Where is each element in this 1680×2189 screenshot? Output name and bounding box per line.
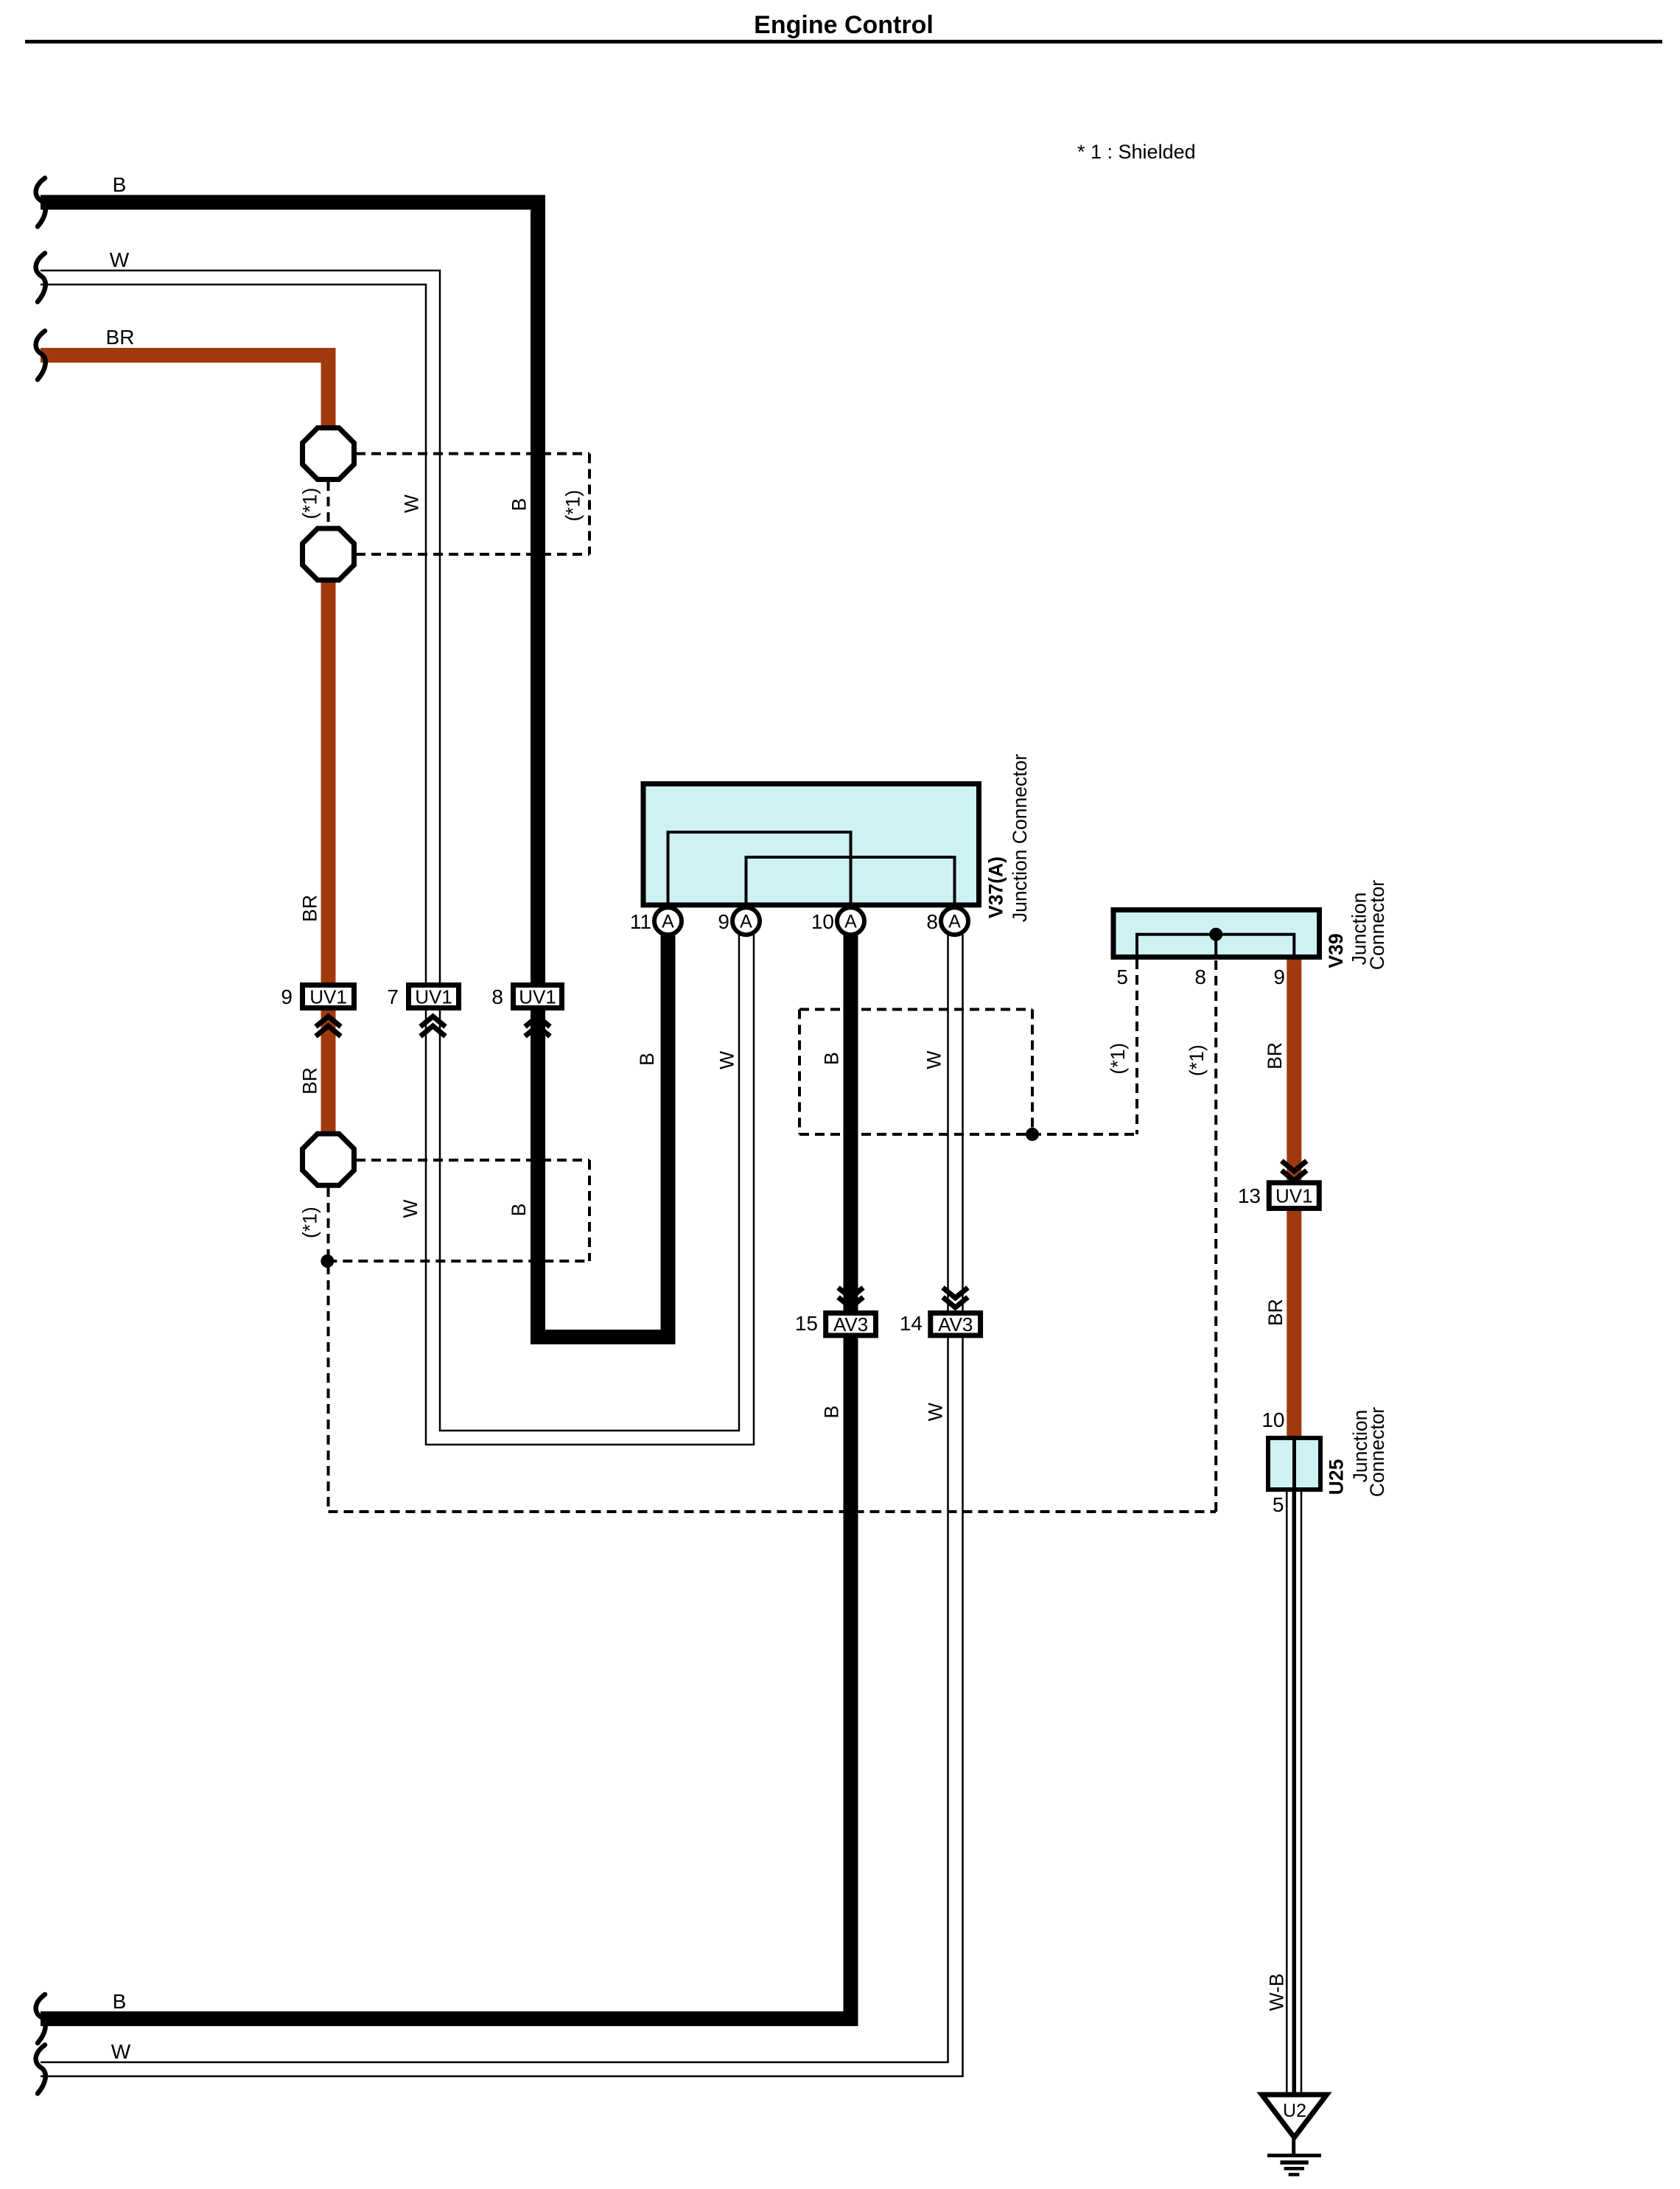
svg-text:W: W bbox=[111, 2040, 131, 2063]
svg-text:UV1: UV1 bbox=[415, 986, 452, 1008]
svg-text:9: 9 bbox=[1273, 966, 1285, 988]
svg-text:W-B: W-B bbox=[1265, 1973, 1287, 2011]
V39 internal junction dot bbox=[1209, 928, 1222, 941]
svg-text:U25: U25 bbox=[1326, 1459, 1348, 1495]
wire BR: octagon2 to octagon3 through UV1 connector 9 bbox=[321, 580, 336, 1136]
svg-text:B: B bbox=[508, 498, 530, 512]
shield dashes: right side of shield B bbox=[588, 1160, 591, 1261]
ground bar 2 bbox=[1281, 2160, 1309, 2165]
wire-continues squiggle (W bottom) bbox=[36, 2045, 46, 2094]
shield dashes: between octagon1 and octagon2 bbox=[327, 481, 330, 527]
svg-text:BR: BR bbox=[106, 326, 135, 349]
svg-text:8: 8 bbox=[491, 985, 503, 1008]
svg-text:9: 9 bbox=[281, 985, 293, 1008]
shield box C: left edge bbox=[798, 1010, 801, 1135]
svg-text:A: A bbox=[740, 912, 752, 932]
wire W-B from U25 pin 5 down to ground U2 bbox=[1286, 1492, 1288, 2092]
svg-text:13: 13 bbox=[1238, 1184, 1261, 1207]
svg-text:W: W bbox=[925, 1403, 947, 1421]
ground bar 1 bbox=[1267, 2154, 1321, 2157]
ground bar 3 bbox=[1284, 2167, 1304, 2171]
svg-text:B: B bbox=[821, 1052, 843, 1065]
wire-continues squiggle (BR top) bbox=[36, 331, 46, 380]
svg-text:B: B bbox=[636, 1052, 658, 1066]
chevron arrows UV1 13 bbox=[1281, 1161, 1306, 1181]
V37(A) pin 11 terminal bbox=[654, 907, 682, 935]
svg-text:(*1): (*1) bbox=[298, 488, 321, 520]
svg-text:UV1: UV1 bbox=[309, 986, 347, 1008]
svg-text:(*1): (*1) bbox=[298, 1207, 321, 1238]
svg-text:(*1): (*1) bbox=[1107, 1043, 1129, 1075]
svg-text:10: 10 bbox=[811, 910, 834, 933]
junction dot shield box C bbox=[1026, 1128, 1039, 1141]
wire BR (top): from left edge to shield octagon bbox=[41, 355, 329, 427]
shield dashes: shield B lower arm back to drain bbox=[327, 1260, 589, 1263]
junction connector V39 body bbox=[1113, 910, 1320, 957]
svg-text:(*1): (*1) bbox=[562, 490, 584, 522]
svg-text:A: A bbox=[948, 912, 961, 932]
svg-text:W: W bbox=[401, 495, 423, 513]
chevron arrows UV1 9 bbox=[316, 1016, 341, 1036]
chevron arrows UV1 8 bbox=[525, 1016, 550, 1036]
wire B (top): from left edge, right then down, U-bend to V37(A) pin 11 bbox=[41, 203, 668, 1338]
junction dot on shield drain bbox=[321, 1254, 334, 1268]
title underline bbox=[25, 40, 1662, 43]
V37(A) internal jumper pin11-pin10 bbox=[668, 832, 851, 907]
shield box C around pin10/pin8 wires: top edge bbox=[799, 1008, 1032, 1011]
svg-text:UV1: UV1 bbox=[1275, 1185, 1313, 1207]
svg-text:8: 8 bbox=[926, 910, 938, 933]
svg-text:B: B bbox=[508, 1204, 530, 1217]
shield octagon 2 bbox=[303, 528, 354, 580]
wire-continues squiggle (W top) bbox=[36, 254, 46, 302]
shield dashes: long bottom run to V39 pin 8 bbox=[329, 1510, 1217, 1513]
svg-text:11: 11 bbox=[630, 910, 651, 933]
shield dashes: octagon2 right arm bbox=[356, 553, 589, 556]
wire BR from V39 pin 9 down to U25 bbox=[1287, 960, 1301, 1436]
shield dashes: octagon3 right arm bbox=[356, 1159, 589, 1162]
svg-text:B: B bbox=[113, 1990, 127, 2013]
shield octagon 3 bbox=[303, 1134, 354, 1185]
svg-text:W: W bbox=[923, 1051, 945, 1069]
U25 divider bbox=[1292, 1438, 1296, 1490]
svg-text:AV3: AV3 bbox=[938, 1313, 973, 1336]
svg-text:10: 10 bbox=[1261, 1408, 1284, 1431]
svg-text:7: 7 bbox=[387, 985, 399, 1008]
svg-text:W: W bbox=[399, 1199, 421, 1218]
V37(A) pin 8 terminal bbox=[941, 907, 968, 935]
V37(A) internal jumper pin9-pin8 bbox=[746, 857, 955, 907]
junction connector U25 body bbox=[1268, 1438, 1320, 1490]
shield dashes: octagon3 drain down to ground run bbox=[327, 1187, 330, 1512]
svg-text:9: 9 bbox=[718, 910, 729, 933]
svg-text:W: W bbox=[110, 248, 130, 271]
svg-text:(*1): (*1) bbox=[1186, 1044, 1208, 1076]
chevron arrows AV3 14 bbox=[943, 1288, 968, 1308]
svg-text:BR: BR bbox=[298, 895, 321, 922]
shield dashes: octagon1 right arm bbox=[356, 453, 589, 455]
ground stem bbox=[1292, 2136, 1295, 2155]
svg-text:5: 5 bbox=[1273, 1493, 1284, 1516]
wire-continues squiggle (B bottom) bbox=[36, 1994, 46, 2043]
svg-text:AV3: AV3 bbox=[833, 1313, 868, 1336]
svg-text:8: 8 bbox=[1194, 966, 1206, 988]
connector AV3 pin 14 (box) bbox=[931, 1313, 981, 1336]
V37(A) pin 10 terminal bbox=[837, 907, 864, 935]
svg-text:A: A bbox=[844, 912, 857, 932]
shield box C: bottom edge to V39 pin 5 dash bbox=[799, 1133, 1137, 1136]
svg-text:B: B bbox=[113, 173, 127, 196]
V39 internal jumper pin8 stem bbox=[1214, 935, 1217, 960]
svg-text:V37(A): V37(A) bbox=[984, 856, 1007, 918]
svg-text:Connector: Connector bbox=[1366, 880, 1388, 970]
wire B from V37 pin 10 down through AV3 15 to bottom left edge bbox=[41, 935, 851, 2019]
svg-text:* 1 : Shielded: * 1 : Shielded bbox=[1077, 141, 1196, 163]
svg-text:BR: BR bbox=[1264, 1042, 1286, 1069]
shield dashes: V39 pin 5 down to shield box C bbox=[1135, 960, 1138, 1134]
svg-text:BR: BR bbox=[1264, 1299, 1287, 1326]
V37(A) pin 9 terminal bbox=[732, 907, 760, 935]
chevron arrows UV1 7 bbox=[421, 1016, 446, 1036]
chevron arrows AV3 15 bbox=[839, 1288, 864, 1308]
svg-text:U2: U2 bbox=[1283, 2101, 1306, 2121]
svg-text:5: 5 bbox=[1116, 966, 1128, 988]
shield dashes: right side of shield A bbox=[588, 454, 591, 555]
W-B black stripe bbox=[1292, 1492, 1297, 2092]
svg-text:UV1: UV1 bbox=[519, 986, 556, 1008]
svg-text:W: W bbox=[716, 1051, 738, 1069]
connector UV1 pin 13 (box) bbox=[1269, 1183, 1319, 1209]
shield octagon 1 bbox=[303, 428, 354, 480]
ground U2 triangle bbox=[1262, 2095, 1327, 2137]
wire-continues squiggle (B top) bbox=[36, 178, 46, 227]
svg-text:A: A bbox=[662, 912, 674, 932]
svg-text:V39: V39 bbox=[1325, 933, 1347, 968]
wire W pair (top): from left edge, down, U-bend to V37(A) pin 9 bbox=[41, 270, 739, 1431]
wire W pair from V37 pin 8 down through AV3 14 to bottom left edge bbox=[41, 935, 948, 2062]
svg-text:14: 14 bbox=[900, 1312, 923, 1335]
ground bar 4 bbox=[1289, 2173, 1300, 2176]
svg-text:BR: BR bbox=[298, 1067, 321, 1094]
svg-text:Engine Control: Engine Control bbox=[754, 11, 934, 39]
connector AV3 pin 15 (box) bbox=[826, 1313, 876, 1336]
connector UV1 pin 9 (box) bbox=[303, 985, 354, 1008]
connector UV1 pin 8 (box) bbox=[514, 985, 562, 1008]
svg-text:Junction Connector: Junction Connector bbox=[1009, 754, 1031, 923]
V39 internal jumper pin5-pin9 bbox=[1137, 935, 1294, 960]
svg-text:B: B bbox=[821, 1406, 843, 1419]
svg-text:Connector: Connector bbox=[1366, 1407, 1388, 1497]
svg-text:15: 15 bbox=[795, 1312, 818, 1335]
shield dashes: up to V39 pin 8 bbox=[1214, 960, 1217, 1512]
shield box C: right edge bbox=[1031, 1010, 1034, 1135]
junction connector V37(A) body bbox=[643, 784, 979, 905]
connector UV1 pin 7 (box) bbox=[409, 985, 459, 1008]
